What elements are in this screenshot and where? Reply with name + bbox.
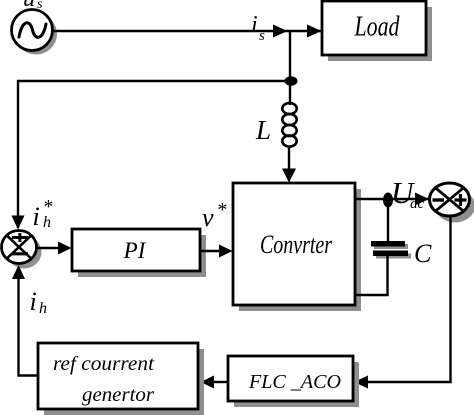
AC source shadow <box>15 14 57 55</box>
svg-text:dc: dc <box>410 196 425 212</box>
svg-text:*: * <box>43 196 53 218</box>
box FLC_ACO shadow <box>234 362 359 407</box>
svg-text:i: i <box>33 202 40 231</box>
wire S2 down to FLC_ACO <box>366 216 451 382</box>
summing junction S1 <box>2 231 37 264</box>
wire PI to converter <box>200 250 220 252</box>
svg-text:i: i <box>251 12 258 38</box>
plus sign in S2 <box>455 194 467 206</box>
arrowhead into ref generator <box>201 376 215 389</box>
inductor L <box>282 103 296 147</box>
wire from top line down to inductor <box>289 31 291 105</box>
box Load shadow <box>328 7 432 61</box>
capacitor C plates <box>371 241 411 259</box>
arrowhead into converter <box>282 169 296 183</box>
svg-text:PI: PI <box>123 238 147 263</box>
minus sign in S1 <box>12 252 28 255</box>
arrowhead into FLC_ACO <box>354 376 368 389</box>
summing junction S2 shadow <box>435 190 474 223</box>
arrowhead v* into converter <box>219 245 233 258</box>
label i_s <box>251 12 265 44</box>
svg-text:L: L <box>255 115 271 145</box>
summing junction S2 <box>430 183 470 216</box>
svg-text:Load: Load <box>354 12 401 43</box>
svg-text:s: s <box>259 28 265 44</box>
wire i_s top <box>52 30 322 32</box>
box ref current generator <box>38 343 198 409</box>
box PI <box>72 229 200 271</box>
svg-text:s: s <box>37 0 43 12</box>
wire FLC_ACO to ref generator <box>212 381 228 383</box>
svg-text:Convrter: Convrter <box>260 230 333 259</box>
node junction dot <box>285 76 298 86</box>
arrowhead up into S1 <box>12 265 25 279</box>
svg-text:v: v <box>202 203 214 232</box>
node dot U_dc <box>383 193 393 208</box>
label i_h <box>30 287 48 317</box>
minus sign in S2 <box>433 198 445 201</box>
arrowhead down into summer <box>12 216 25 230</box>
arrowhead into PI <box>58 242 72 255</box>
wire capacitor bottom return <box>355 256 388 295</box>
svg-text:FLC _ACO: FLC _ACO <box>248 371 341 393</box>
label v* <box>202 199 227 232</box>
svg-text:h: h <box>39 300 47 317</box>
wire inductor to converter <box>288 147 290 172</box>
summing junction S1 shadow <box>7 236 42 269</box>
arrowhead into S2 <box>415 193 429 206</box>
box FLC_ACO <box>228 356 353 401</box>
box Convrter shadow <box>239 189 361 311</box>
svg-text:*: * <box>217 199 227 221</box>
wire converter to S2 <box>355 198 429 200</box>
arrowhead i_s <box>273 25 288 38</box>
box ref current generator shadow <box>44 349 204 415</box>
box Convrter <box>233 183 355 305</box>
svg-text:ref courrent: ref courrent <box>53 353 154 375</box>
box Load <box>322 1 426 55</box>
arrowhead into Load <box>307 25 322 38</box>
wire S1 to PI <box>37 247 61 249</box>
box PI shadow <box>78 235 206 277</box>
wire feedback to left <box>18 81 291 228</box>
svg-text:i: i <box>30 287 37 316</box>
label U_dc <box>391 175 425 212</box>
label i_h* <box>33 196 53 231</box>
wire ref generator to S1 <box>19 278 39 376</box>
svg-text:u: u <box>23 0 35 12</box>
svg-text:genertor: genertor <box>82 384 154 406</box>
svg-text:C: C <box>414 239 432 268</box>
AC source u_s <box>12 10 53 51</box>
plus sign in S1 <box>12 233 28 242</box>
label u_s <box>23 0 43 12</box>
wire dot down to capacitor <box>387 205 389 241</box>
